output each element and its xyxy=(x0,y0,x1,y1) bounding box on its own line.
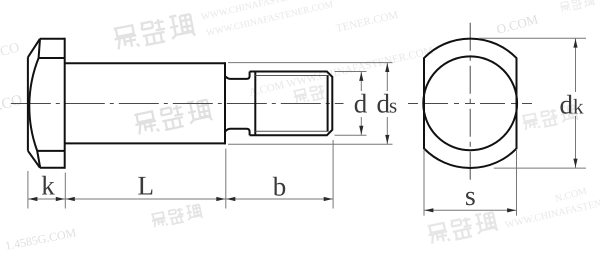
thread chamfer base line xyxy=(327,75,329,132)
watermark right-middle chinese xyxy=(521,104,578,131)
extension line dk bottom xyxy=(494,167,586,169)
arrow d bottom xyxy=(359,126,363,135)
svg-text:s: s xyxy=(465,181,476,212)
watermark center-right chinese fragment xyxy=(293,84,326,104)
thread start line xyxy=(254,72,256,136)
dimension line ds upper xyxy=(386,63,388,91)
end view dome circle xyxy=(423,56,517,150)
head top edge xyxy=(40,38,65,40)
shoulder top edge xyxy=(65,62,225,64)
extension line ds top xyxy=(228,62,393,64)
dimension line s xyxy=(424,209,517,211)
shoulder outline xyxy=(65,62,225,144)
shoulder right edge xyxy=(224,62,226,144)
shoulder bottom edge xyxy=(65,142,225,144)
arrow b left xyxy=(226,197,235,201)
thread root line bottom xyxy=(255,130,327,132)
arrow ds bottom xyxy=(385,135,389,144)
arrow b right xyxy=(324,197,333,201)
svg-text:L: L xyxy=(138,171,155,201)
dimension line k L b xyxy=(28,198,333,200)
arrow s right xyxy=(507,208,516,212)
arrow dk bottom xyxy=(573,159,577,168)
svg-text:s: s xyxy=(389,94,397,118)
dimension line ds lower xyxy=(386,117,388,144)
thread body outline xyxy=(250,72,333,136)
arrow d top xyxy=(359,72,363,81)
dimension line d lower xyxy=(360,117,362,135)
extension line k left xyxy=(27,171,29,209)
dimension line dk upper xyxy=(575,38,577,92)
head side view outline xyxy=(28,38,65,169)
neck top profile xyxy=(226,72,250,79)
arrow ds top xyxy=(385,63,389,72)
svg-text:d: d xyxy=(560,89,574,119)
head interior top line xyxy=(39,57,65,59)
head interior top slant xyxy=(39,39,40,58)
extension line dk top xyxy=(479,37,586,39)
watermark center chinese xyxy=(133,98,212,135)
end view head outline with flats xyxy=(424,39,517,168)
extension line d top xyxy=(335,71,367,73)
extension line d bottom xyxy=(335,134,367,136)
neck and thread outline xyxy=(226,72,333,136)
arrow L right xyxy=(216,197,225,201)
neck bottom profile xyxy=(226,129,250,135)
arrow dk top xyxy=(573,39,577,48)
svg-text:b: b xyxy=(273,172,287,202)
arrow s left xyxy=(425,208,434,212)
watermark top-right corner chinese xyxy=(559,0,595,12)
dimension line dk lower xyxy=(575,116,577,168)
end view outline xyxy=(423,39,517,168)
watermark bottom-center chinese xyxy=(150,204,202,229)
head bottom edge xyxy=(40,167,65,169)
thread root line top xyxy=(255,75,327,77)
extension line s left xyxy=(423,149,425,216)
head left edge xyxy=(27,57,29,151)
extension line L right / b left xyxy=(225,149,227,209)
head top chamfer xyxy=(28,39,40,58)
head bottom chamfer xyxy=(28,151,40,168)
centerline left view xyxy=(11,103,344,105)
arrow L left xyxy=(66,197,75,201)
centerline right view vertical xyxy=(469,23,471,183)
watermark bottom-right chinese xyxy=(427,211,498,245)
arrow k right xyxy=(56,197,65,201)
arrow k left xyxy=(29,197,38,201)
extension line k right / L left xyxy=(64,173,66,209)
extension line ds bottom xyxy=(228,143,393,145)
svg-text:k: k xyxy=(41,171,55,201)
svg-text:d: d xyxy=(354,89,368,119)
extension line s right xyxy=(516,149,518,216)
centerline right view horizontal xyxy=(408,103,534,105)
head interior bottom line xyxy=(37,150,64,152)
dimension line d upper xyxy=(360,72,362,92)
head right edge xyxy=(64,38,66,169)
watermark top-center chinese xyxy=(112,13,195,51)
head interior bottom slant xyxy=(37,151,40,168)
head dome arc xyxy=(29,58,38,151)
svg-text:k: k xyxy=(573,94,584,118)
extension line b right xyxy=(332,140,334,209)
